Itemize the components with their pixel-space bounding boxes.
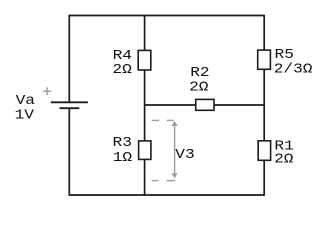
resistor R3 body [139,141,151,160]
svg-text:R2: R2 [190,66,209,81]
resistor R2 body [196,99,214,110]
V3 arrowhead down [172,173,178,178]
wire top rail [69,15,265,17]
resistor R5 body [258,50,271,69]
wire left rail upper (top rail to battery) [68,15,70,103]
svg-text:2/3Ω: 2/3Ω [274,62,313,77]
svg-text:R4: R4 [113,49,132,64]
svg-text:1Ω: 1Ω [113,151,132,166]
wire bottom rail [69,194,265,196]
V3 measurement arrow shaft [174,125,176,176]
wire middle rail [144,15,146,196]
svg-text:2Ω: 2Ω [112,63,131,78]
svg-text:V3: V3 [175,148,194,163]
battery Va top plate [51,101,88,103]
V3 arrowhead up [172,121,178,126]
V3 bottom dashed reference line [152,180,176,182]
svg-text:1V: 1V [15,108,34,123]
svg-text:2Ω: 2Ω [189,80,208,95]
battery plus sign [43,87,51,95]
resistor R4 body [138,50,151,70]
V3 top dashed reference line [152,119,174,121]
svg-text:R3: R3 [113,136,132,151]
wire right rail [263,15,265,196]
svg-text:R5: R5 [275,48,294,63]
battery Va bottom plate [60,107,80,109]
resistor R1 body [258,141,270,161]
svg-text:2Ω: 2Ω [274,152,293,167]
svg-text:Va: Va [16,94,35,109]
wire middle horizontal (node between R4/R3 to R2 to right rail) [145,104,265,106]
wire left rail lower (battery to bottom rail) [68,108,70,196]
